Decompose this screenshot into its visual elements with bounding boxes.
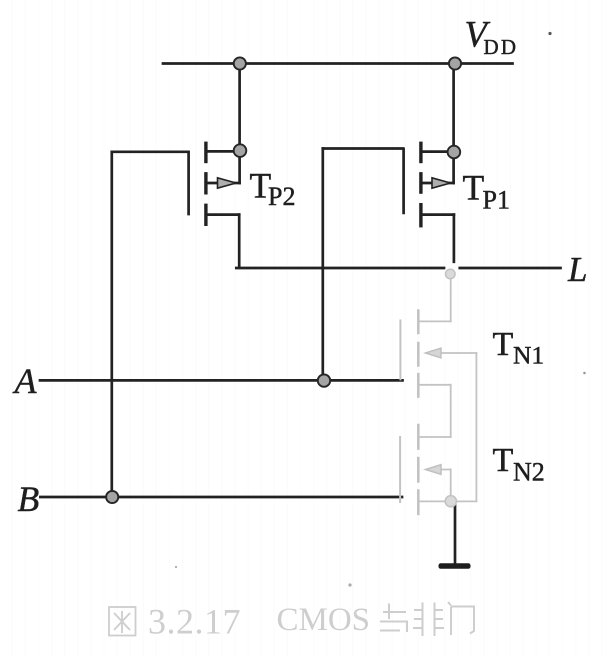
svg-text:CMOS: CMOS	[277, 602, 371, 638]
svg-text:N1: N1	[513, 341, 544, 370]
svg-text:3.2.17: 3.2.17	[148, 602, 241, 642]
svg-text:DD: DD	[484, 35, 519, 59]
svg-text:B: B	[18, 479, 40, 519]
svg-text:P2: P2	[268, 182, 295, 211]
svg-text:T: T	[493, 442, 514, 479]
svg-text:A: A	[13, 361, 38, 401]
svg-text:T: T	[493, 326, 514, 363]
svg-text:L: L	[567, 250, 587, 289]
svg-text:T: T	[463, 168, 485, 208]
svg-text:N2: N2	[513, 458, 545, 487]
svg-text:P1: P1	[483, 186, 510, 215]
